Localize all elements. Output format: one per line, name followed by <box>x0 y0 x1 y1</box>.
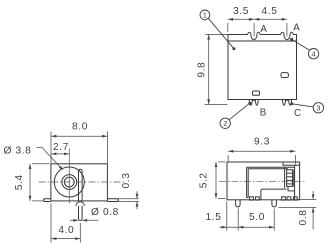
comb divider vertical <box>293 170 295 187</box>
leader diameter 3.8 <box>37 147 62 168</box>
svg-text:1: 1 <box>203 11 207 20</box>
svg-text:0.8: 0.8 <box>298 210 309 226</box>
slot right-middle of top view <box>281 73 288 78</box>
svg-text:8.0: 8.0 <box>72 122 88 133</box>
slot bottom-center of top view <box>253 91 260 95</box>
body outline side view <box>227 162 300 200</box>
svg-text:Ø 0.8: Ø 0.8 <box>91 207 119 218</box>
svg-text:B: B <box>260 108 267 119</box>
horizontal centerline front view <box>39 181 126 183</box>
comb rung 2 <box>287 176 293 178</box>
svg-text:A: A <box>260 24 267 35</box>
svg-text:2.7: 2.7 <box>53 142 69 153</box>
side pin rear (round) <box>272 200 277 207</box>
balloon 1 circle <box>200 10 210 20</box>
dim 3.5 / 4.5 top <box>228 18 287 20</box>
comb left support line <box>284 167 286 188</box>
bushing inner circle <box>64 177 74 187</box>
svg-text:1.5: 1.5 <box>206 212 222 223</box>
svg-text:9.3: 9.3 <box>254 137 270 148</box>
dim 0.8 side pin <box>312 191 314 199</box>
dim 0.3 right tab <box>118 198 139 200</box>
svg-text:5.0: 5.0 <box>249 212 265 223</box>
pin A right (top bumps) <box>281 32 293 39</box>
balloon 2 circle <box>220 118 230 128</box>
body outline front view <box>51 164 108 201</box>
dim 8.0 front view <box>51 135 107 137</box>
bushing outer circle <box>54 167 84 197</box>
comb rung 3 <box>287 179 293 181</box>
inner housing wall left (double line) <box>246 167 248 197</box>
svg-text:3.5: 3.5 <box>233 6 249 17</box>
inner bottom wall line <box>247 197 249 199</box>
svg-text:4.5: 4.5 <box>262 6 278 17</box>
foot group 1 square a <box>250 197 254 200</box>
center pin below body <box>79 206 83 221</box>
dim 5.2 side view <box>215 162 217 199</box>
dim 9.8 left of top view <box>208 34 210 104</box>
svg-text:A: A <box>293 23 300 34</box>
svg-text:4.0: 4.0 <box>58 225 74 236</box>
svg-text:5.2: 5.2 <box>199 172 210 188</box>
dim 4.0 front view <box>51 238 80 240</box>
right end cap notch <box>288 186 295 191</box>
dim 9.3 side view <box>228 150 295 152</box>
svg-text:4: 4 <box>311 49 315 58</box>
foot group 1 square b <box>255 197 259 200</box>
pin C (bottom hanging) <box>283 100 292 106</box>
comb rung 4 <box>287 183 293 185</box>
dim 2.7 front view <box>51 153 69 155</box>
svg-text:5.4: 5.4 <box>14 174 25 190</box>
vertical centerline front view bushing <box>68 149 70 204</box>
balloon 4 circle <box>308 49 318 59</box>
pin A left (top bumps) <box>248 32 260 39</box>
pin collar bump on bottom edge <box>76 202 85 206</box>
top right step line <box>283 162 300 165</box>
right end cap vertical <box>294 165 296 199</box>
right mounting tab <box>107 199 118 202</box>
center pin seen through body (capsule) <box>79 169 83 201</box>
inner bottom step <box>261 189 287 199</box>
inner top edge <box>247 166 295 168</box>
svg-text:3: 3 <box>316 104 320 113</box>
balloon 4 leader <box>292 39 310 50</box>
foot group 2 square a <box>282 197 286 200</box>
balloon 3 leader <box>292 104 314 107</box>
contact comb outer box <box>287 170 293 187</box>
foot group 2 square b <box>287 197 291 200</box>
svg-text:0.3: 0.3 <box>121 173 132 189</box>
svg-text:2: 2 <box>223 119 227 128</box>
dim diameter 0.8 front pin <box>70 219 79 221</box>
svg-text:Ø 3.8: Ø 3.8 <box>4 145 32 156</box>
balloon 3 circle <box>313 103 323 113</box>
dim 5.4 front view <box>29 164 31 201</box>
body inner top edge line <box>228 40 297 42</box>
bushing middle circle <box>62 175 77 190</box>
pin B (bottom hanging) <box>249 100 258 106</box>
side pin front (round) <box>236 200 241 207</box>
inner housing wall second line <box>248 169 288 198</box>
balloon 1 leader <box>208 18 234 48</box>
dim 1.5 / 5.0 bottom side view <box>220 226 275 228</box>
body outline top view <box>228 35 297 100</box>
foot group 2 square c <box>293 197 297 200</box>
left mounting tab <box>44 199 51 202</box>
svg-text:C: C <box>294 108 301 119</box>
comb rung 1 <box>287 172 293 174</box>
balloon 2 leader <box>229 103 250 120</box>
svg-text:9.8: 9.8 <box>197 62 208 78</box>
horizontal centerline side view <box>219 181 306 183</box>
